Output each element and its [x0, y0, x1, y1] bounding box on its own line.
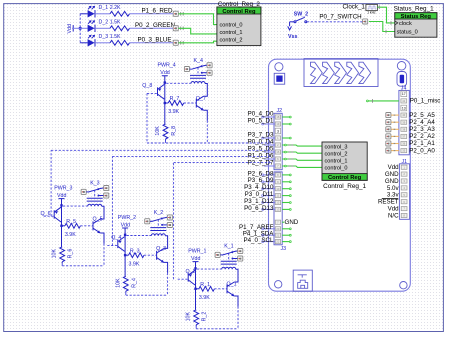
power net Vdd (LED section) [67, 24, 73, 33]
svg-text:PWR_1: PWR_1 [188, 248, 206, 254]
wire: stub to LED D_2 [72, 27, 88, 29]
transistor Q_6 [41, 207, 62, 222]
svg-text:P0_5_D1: P0_5_D1 [248, 117, 274, 124]
resistor for D_2 [110, 26, 130, 31]
svg-text:clock: clock [399, 21, 412, 27]
board slot top-right [397, 72, 407, 87]
relay K_3 [63, 181, 109, 207]
transistor Q_2 [186, 269, 196, 285]
svg-text:Q_8: Q_8 [142, 83, 152, 89]
svg-text:D_2 1.5K: D_2 1.5K [99, 20, 122, 26]
svg-text:13: 13 [276, 208, 279, 212]
svg-text:Q_2: Q_2 [186, 269, 196, 275]
svg-text:R_5: R_5 [66, 219, 76, 225]
svg-text:Status_Reg_1: Status_Reg_1 [394, 6, 435, 13]
wire: D7 to Control_Reg_1 control_0 [282, 165, 322, 167]
svg-text:Control Reg: Control Reg [222, 9, 256, 15]
wire: dashed R_6 bottom stub [61, 263, 63, 265]
wire: collector of Q_5 to relay coil [100, 207, 104, 219]
wire resistor to connector, net P0_2_GREEN [130, 22, 175, 29]
svg-text:Vdd: Vdd [160, 70, 169, 76]
wire: stub to LED D_3 [80, 42, 87, 44]
svg-text:Control_Reg_2: Control_Reg_2 [218, 1, 261, 8]
svg-text:Q_7: Q_7 [196, 96, 206, 102]
wire: D4 to Control_Reg_1 control_3 [282, 144, 322, 146]
svg-text:1 kHz: 1 kHz [367, 11, 376, 15]
svg-text:P3_5_D5: P3_5_D5 [248, 145, 274, 152]
svg-text:40: 40 [402, 113, 405, 117]
svg-text:35: 35 [402, 149, 405, 153]
svg-text:10K: 10K [186, 312, 192, 322]
wire: dashed vertical Vdd bus for LEDs [79, 14, 81, 43]
wire: green RED to Control_Reg_2 control_0 [179, 14, 217, 25]
svg-text:Vdd: Vdd [57, 193, 66, 199]
GND net at J3 pin [282, 219, 299, 226]
power net Vdd of PWR_2 [121, 222, 130, 234]
svg-text:K_2: K_2 [154, 210, 163, 216]
svg-text:K_4: K_4 [194, 58, 203, 64]
hierarchical block Control_Reg_1 [322, 142, 367, 190]
svg-text:P2_3_A3: P2_3_A3 [409, 126, 435, 133]
svg-text:P0_7_SWITCH: P0_7_SWITCH [319, 13, 361, 20]
svg-text:J3: J3 [281, 246, 287, 252]
svg-text:control_2: control_2 [220, 37, 243, 43]
svg-text:J1: J1 [402, 159, 408, 165]
svg-text:P2_1_A1: P2_1_A1 [409, 140, 435, 147]
svg-text:P0_1_misc: P0_1_misc [410, 98, 441, 105]
hierarchical block Control_Reg_2 [217, 1, 261, 45]
relay K_1 [197, 244, 243, 270]
wire: dashed base lead of Q_8 [147, 92, 158, 94]
wire: dashed local bottom PWR_3 [62, 265, 102, 267]
transistor Q_5 [93, 216, 103, 233]
svg-text:Status Reg: Status Reg [401, 14, 432, 20]
board mounting hole bottom-left [275, 281, 282, 288]
svg-text:D_3 1.5K: D_3 1.5K [99, 34, 122, 40]
svg-text:3.9K: 3.9K [129, 261, 140, 267]
svg-text:20: 20 [276, 227, 279, 231]
svg-text:control_2: control_2 [325, 152, 348, 158]
wire: dashed base lead of Q_2 [178, 278, 189, 280]
header J1 [378, 159, 410, 220]
svg-text:R_1: R_1 [200, 282, 210, 288]
svg-text:16: 16 [276, 150, 279, 154]
resistor R_2 10K [186, 310, 208, 327]
net labels for left header pins (with wire stubs) [239, 110, 275, 244]
svg-text:13: 13 [402, 106, 406, 110]
wire: dashed net PWR_1 to D7 [173, 163, 175, 280]
wire: stub to LED D_1 [80, 13, 87, 15]
svg-text:11: 11 [277, 194, 280, 198]
svg-text:P0_2_GREEN: P0_2_GREEN [135, 22, 175, 29]
svg-text:10K: 10K [115, 278, 121, 288]
transistor Q_4 [111, 235, 124, 251]
svg-text:Control Reg: Control Reg [328, 175, 362, 181]
svg-text:control_0: control_0 [220, 23, 243, 29]
svg-text:19: 19 [276, 122, 279, 126]
node: Vdd junction dot [79, 27, 82, 30]
LED D_1 [88, 5, 121, 17]
resistor R_4 10K [115, 276, 137, 293]
LED D_2 [88, 20, 121, 32]
svg-text:PWR_4: PWR_4 [158, 63, 176, 69]
wire: vertical trunk of PWR_2 [124, 235, 126, 276]
off-page connector P1_6_RED [173, 11, 183, 16]
svg-text:12: 12 [276, 201, 279, 205]
svg-text:Vdd: Vdd [191, 256, 200, 262]
header J3 [274, 172, 286, 252]
wire: collector of Q_3 to relay coil [164, 236, 168, 248]
svg-text:18: 18 [276, 115, 279, 119]
relay K_2 [127, 210, 173, 236]
board fiducial square top-left [274, 73, 285, 84]
svg-text:38: 38 [402, 127, 405, 131]
board chevron logo box [304, 59, 378, 87]
hierarchical block Status_Reg_1 [394, 6, 437, 38]
transistor Q_3 [156, 246, 166, 263]
svg-text:10K: 10K [155, 126, 161, 136]
resistor R_7 3.9K [165, 96, 184, 115]
svg-text:P2_2_A2: P2_2_A2 [409, 133, 435, 140]
off-page connector P0_3_BLUE [173, 40, 183, 45]
svg-text:Vss: Vss [288, 34, 297, 40]
node: Vdd junction of PWR_2 [124, 234, 126, 236]
transistor Q_7 [196, 96, 206, 110]
svg-text:10K: 10K [52, 249, 58, 259]
svg-text:36: 36 [402, 142, 405, 146]
svg-text:P2_0_A0: P2_0_A0 [409, 147, 435, 154]
svg-text:P0_4_D0: P0_4_D0 [248, 110, 274, 117]
resistor for D_3 [110, 40, 130, 45]
switch SW_2 [290, 11, 309, 22]
svg-text:control_3: control_3 [325, 144, 348, 150]
svg-text:P1_0_D6: P1_0_D6 [248, 152, 274, 159]
board mounting hole top-right [397, 62, 406, 71]
node: Vdd junction of PWR_4 [164, 81, 166, 83]
wire: green BLUE to Control_Reg_2 control_2 [179, 41, 217, 43]
wire: dashed R_4 bottom stub [125, 293, 127, 295]
svg-text:R_6: R_6 [68, 249, 74, 259]
wire: vertical trunk of PWR_3 [61, 205, 63, 246]
wire+connector P2_4_A4 [386, 119, 436, 126]
svg-text:Clock_1: Clock_1 [343, 4, 366, 11]
wire: dashed R_1 to Q_1 base [214, 288, 227, 290]
wire: green P0_1_misc stub [367, 98, 441, 105]
svg-text:P1_6_RED: P1_6_RED [142, 7, 173, 14]
svg-text:N/C: N/C [388, 212, 399, 219]
svg-text:17: 17 [402, 92, 406, 96]
wire: dashed local bottom PWR_1 [196, 328, 236, 330]
wire: emitter of Q_5 down [100, 233, 104, 244]
wire+connector P2_5_A5 [386, 112, 436, 119]
wire: switch connector to status_0 [369, 22, 395, 34]
wire: dashed net PWR_3 to D5 [50, 150, 52, 216]
svg-text:P0_6_D13: P0_6_D13 [244, 205, 274, 212]
svg-text:K_1: K_1 [224, 244, 233, 250]
resistor for D_1 [110, 11, 130, 16]
svg-text:3.9K: 3.9K [168, 109, 179, 115]
svg-text:R_4: R_4 [131, 278, 137, 288]
svg-text:R_3: R_3 [130, 248, 140, 254]
svg-text:SW_2: SW_2 [294, 11, 308, 17]
wire: dashed R_7 to Q_7 base [184, 102, 197, 104]
svg-text:J2: J2 [277, 108, 283, 114]
resistor R_3 3.9K [125, 248, 144, 267]
wire+connector P2_2_A2 [386, 133, 436, 140]
wire: collector of Q_1 to relay coil [234, 270, 238, 282]
svg-text:R_2: R_2 [202, 312, 208, 322]
transistor Q_1 [227, 282, 237, 297]
svg-text:control_1: control_1 [325, 159, 348, 165]
svg-text:P4_0_SCL: P4_0_SCL [243, 237, 273, 244]
svg-text:3: 3 [277, 129, 279, 133]
transistor Q_8 [142, 83, 164, 99]
wire: dashed net PWR_4 to D4 [146, 93, 148, 143]
svg-text:K_3: K_3 [90, 181, 99, 187]
wire: dashed R_5 to Q_5 base [80, 225, 93, 227]
resistor R_5 3.9K [62, 219, 81, 238]
wire: dashed base lead of Q_4 [107, 245, 118, 247]
wire: dashed base lead of Q_6 [44, 215, 55, 217]
svg-text:R_8: R_8 [171, 126, 177, 136]
svg-text:GND: GND [285, 219, 299, 226]
wire: dashed R_3 to Q_3 base [144, 254, 157, 256]
wire: dashed net PWR_2 to D6 [111, 156, 113, 245]
green pin stubs J2/J3 [282, 116, 291, 242]
ground Vss [288, 22, 298, 40]
board mounting hole bottom-right [400, 282, 407, 289]
svg-text:21: 21 [276, 233, 279, 237]
svg-text:D_1 2.2K: D_1 2.2K [99, 5, 122, 11]
wire: emitter of Q_1 down [234, 296, 238, 307]
node: Vdd junction of PWR_1 [194, 267, 196, 269]
svg-text:41: 41 [402, 99, 405, 103]
svg-text:R_7: R_7 [170, 96, 180, 102]
wire+connector P2_0_A0 [386, 147, 436, 154]
wire resistor to connector, net P1_6_RED [130, 7, 174, 14]
svg-text:control_1: control_1 [220, 30, 243, 36]
board mounting hole top-left [275, 63, 283, 71]
wire LED to resistor [96, 13, 110, 15]
clock source Clock_1 [343, 4, 378, 15]
svg-text:P0_0_D4: P0_0_D4 [248, 138, 274, 145]
svg-text:P2_5_A5: P2_5_A5 [409, 112, 435, 119]
svg-text:3.9K: 3.9K [199, 295, 210, 301]
wire LED to resistor [96, 27, 110, 29]
resistor R_8 10K [155, 124, 177, 141]
wire LED to resistor [96, 42, 110, 44]
wire: vertical trunk of PWR_4 [164, 83, 166, 124]
power net Vdd of PWR_4 [160, 70, 169, 82]
svg-text:Q_3: Q_3 [156, 246, 166, 252]
svg-text:Control_Reg_1: Control_Reg_1 [323, 183, 367, 190]
resistor R_1 3.9K [196, 282, 215, 301]
wire+connector P2_1_A1 [386, 140, 436, 147]
svg-text:22: 22 [276, 240, 279, 244]
wire: dashed R_8 bottom stub [165, 141, 167, 143]
relay K_4 [166, 58, 212, 84]
wire: D6 to Control_Reg_1 control_1 [282, 158, 322, 160]
chevron arrows [311, 62, 371, 83]
microcontroller board outline [269, 59, 411, 291]
wire: switch to connector P0_7_SWITCH [307, 13, 363, 22]
header J4 [399, 86, 409, 155]
wire: green GREEN to Control_Reg_2 control_1 [179, 28, 217, 34]
svg-text:10: 10 [276, 187, 279, 191]
wire: vertical trunk of PWR_1 [195, 268, 197, 309]
power net Vdd of PWR_1 [191, 256, 200, 268]
svg-text:P0_3_BLUE: P0_3_BLUE [137, 36, 171, 43]
wire resistor to connector, net P0_3_BLUE [130, 36, 174, 43]
wire+connector P2_3_A3 [386, 126, 436, 133]
svg-text:status_0: status_0 [397, 30, 418, 36]
node: Vdd junction of PWR_3 [60, 204, 62, 206]
off-page connector P0_7_SWITCH [363, 19, 368, 24]
LED D_3 [88, 34, 121, 46]
board USB connector icon [293, 270, 312, 291]
wire: D5 to Control_Reg_1 control_2 [282, 151, 322, 153]
wire: dashed R_2 bottom stub [195, 326, 197, 328]
svg-text:P2_4_A4: P2_4_A4 [409, 119, 435, 126]
svg-text:37: 37 [402, 135, 405, 139]
svg-text:39: 39 [402, 120, 405, 124]
svg-text:Vdd: Vdd [121, 222, 130, 228]
svg-text:P3_7_D3: P3_7_D3 [248, 131, 274, 138]
svg-text:PWR_2: PWR_2 [118, 215, 136, 221]
svg-text:control_0: control_0 [325, 166, 348, 172]
wire: emitter of Q_3 down [164, 262, 168, 273]
wire: emitter of Q_7 down [204, 110, 208, 121]
svg-text:PWR_3: PWR_3 [54, 185, 72, 191]
header J2 [274, 108, 282, 170]
wire: dashed local bottom PWR_2 [126, 294, 166, 296]
wire: collector of Q_7 to relay coil [204, 84, 208, 96]
resistor R_6 10K [52, 247, 74, 264]
wire: clock to Status_Reg_1 clock input [377, 5, 394, 24]
wire: dashed local bottom PWR_4 [165, 139, 167, 143]
svg-text:3.9K: 3.9K [65, 232, 76, 238]
power net Vdd of PWR_3 [57, 193, 66, 205]
off-page connector P0_2_GREEN [173, 26, 183, 31]
